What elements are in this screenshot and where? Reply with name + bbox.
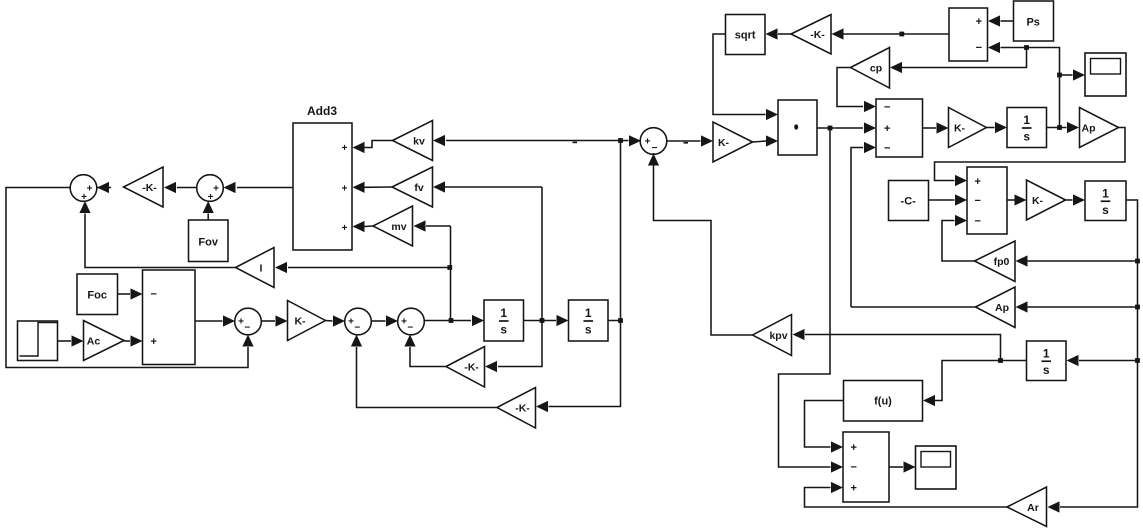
svg-text:1: 1 [1023,113,1030,127]
svg-text:+: + [884,123,890,135]
gain kv [393,121,433,161]
source step [18,321,58,361]
svg-text:s: s [500,323,507,337]
integrator 1/s #4 [1027,341,1067,381]
wire mv output to Add3 in3 [353,221,374,232]
svg-text:−: − [354,323,360,334]
svg-text:Add3: Add3 [307,104,337,118]
svg-text:+: + [81,192,87,203]
svg-text:+: + [401,317,407,328]
svg-text:s: s [1102,203,1109,217]
svg-text:mv: mv [391,221,406,233]
wire SB to SC [371,315,398,326]
svg-text:-K-: -K- [810,29,825,41]
wire cp input [890,48,1027,74]
wire integ1 to integ2 [524,315,569,326]
svg-text:-K-: -K- [464,362,479,374]
wire Fov to S2 bottom [203,201,214,220]
svg-text:Ap: Ap [1082,123,1096,135]
wire integ3 long feedback [1048,200,1140,513]
wire Foc to sum minus [118,288,143,299]
wire tap vertical to fv [541,187,543,321]
wire S1 right input [97,182,111,193]
wire kv input [433,135,621,146]
wire product tap down to sum3 [779,128,844,473]
gain -K- L1 [124,167,164,207]
svg-text:sqrt: sqrt [735,30,756,42]
gain cp [851,48,890,89]
wire integ4 out junction [998,358,1026,363]
wire branch to Ap2 [1016,301,1138,312]
integrator 1/s #2 [569,300,609,341]
wire sum to SA [195,315,235,326]
svg-text:-C-: -C- [901,196,917,208]
wire Sm to K-T1 [666,135,713,146]
wire tap to -K-a [485,321,542,373]
svg-text:+: + [975,176,981,188]
svg-text:1: 1 [500,306,507,320]
block Add3 [293,123,352,250]
sum block 2 (+--) [967,167,1007,234]
svg-text:1: 1 [1102,186,1109,200]
sum block mid (-+-) [876,99,923,157]
svg-text:+: + [851,483,857,495]
svg-text:Ap: Ap [995,302,1009,314]
gain kpv [753,315,792,356]
wire vertical x1059 [988,42,1062,128]
svg-text:+: + [151,336,157,348]
gain fp0 [975,241,1016,282]
wire Ap1 loop to sum2 [935,128,1126,187]
svg-text:cp: cp [870,63,882,75]
svg-text:1: 1 [1043,346,1050,360]
svg-text:f(u): f(u) [874,396,892,408]
gain Ar [1007,487,1047,527]
svg-text:+: + [851,442,857,454]
wire kpv to Sm bottom [648,153,753,335]
wire Ps to sumP [988,15,1014,26]
svg-text:Ps: Ps [1026,17,1039,29]
signal dash 1 [573,142,578,144]
block sqrt [726,15,766,55]
svg-text:K-: K- [954,123,966,135]
svg-text:+: + [342,184,348,195]
wire -C- to sum2 [929,194,968,205]
svg-text:-K-: -K- [142,182,157,194]
wire kv output to Add3 in1 [353,141,393,154]
gain K- T1 [713,122,753,162]
svg-text:Foc: Foc [87,290,107,302]
wire product out junction [817,122,876,133]
gain K- L [288,301,326,341]
wire -K-a to SC bottom [404,335,446,367]
wire S2 right input from Add3 [224,182,294,193]
svg-text:+: + [342,143,348,154]
wire tap vertical mv and I [447,226,452,321]
svg-text:kpv: kpv [769,330,787,342]
integrator 1/s #3 [1085,181,1126,221]
block product [778,100,817,155]
wire branch to fp0 [1016,255,1138,266]
sum circle S2 (++) [197,175,224,203]
svg-text:+: + [348,317,354,328]
wire I input [275,262,450,273]
wire S1 output loop [6,188,254,368]
signal dash 2 [684,142,689,144]
wire fp0 to sum2 [942,215,975,261]
svg-text:−: − [975,195,981,207]
svg-text:Fov: Fov [198,237,218,249]
gain Ap 2 [976,287,1016,328]
gain Ap 1 [1080,108,1119,148]
svg-text:−: − [652,143,658,154]
svg-text:K-: K- [294,316,306,328]
wire integ2 output up [608,138,623,323]
svg-text:fv: fv [414,182,423,194]
gain -K- b [497,388,536,429]
svg-text:K-: K- [718,137,730,149]
block Ps [1014,1,1054,41]
wire summid to K-T2 [923,122,949,133]
gain K- T2 [949,108,987,148]
wire scope1 input [1060,69,1086,80]
scope 1 [1085,53,1126,96]
svg-text:+: + [87,184,93,195]
svg-text:+: + [238,317,244,328]
svg-text:s: s [585,323,592,337]
sum circle Sm (+-) [640,128,667,155]
wire sqrt down to product in1 [713,34,778,120]
svg-text:+: + [645,137,651,148]
wire Ap2 output left [851,306,976,308]
block -C- [889,181,929,221]
wire K-M to integ3 [1066,194,1086,205]
wire -K-T to sqrt [766,28,792,39]
svg-text:+: + [213,184,219,195]
wire SA to K-L [261,315,288,326]
wire junction up to kpv [793,329,1001,361]
svg-text:+: + [208,192,214,203]
svg-text:I: I [260,263,263,275]
integrator 1/s top [1007,108,1047,148]
gain I [236,248,275,288]
wire sumP out to -K-T [832,28,950,39]
svg-text:−: − [407,323,413,334]
sum block left (- +) [143,270,196,365]
svg-text:−: − [884,143,890,155]
wire I output to S1 bottom [79,201,235,268]
svg-text:+: + [976,16,982,28]
wire K-L to SB [326,315,346,326]
wire fu out to sum3 [805,401,844,453]
wire step to Ac [58,335,84,346]
label Add3 [307,104,337,118]
sum circle SB (+-) [345,308,372,335]
sum block 3 (+-+) [843,432,889,502]
scope 2 [916,446,957,489]
wire fv input [433,181,542,192]
svg-text:−: − [884,102,890,114]
svg-text:K-: K- [1032,195,1044,207]
wire -K-L1 input [164,182,197,193]
wire fv output to Add3 in2 [353,182,393,193]
block Fov [189,220,229,262]
svg-text:s: s [1043,363,1050,377]
svg-text:−: − [151,289,157,301]
svg-text:+: + [342,223,348,234]
svg-text:1: 1 [585,306,592,320]
gain fv [392,167,433,207]
gain mv [373,206,413,246]
gain -K- a [446,347,485,388]
wire integ2 output down to -K-b [536,321,621,413]
wire Ap2 up to sum mid [851,142,876,307]
sum circle SC (+-) [398,308,425,335]
gain Ac [84,321,125,361]
svg-text:-K-: -K- [515,403,530,415]
wire cp output to sum mid [837,68,876,113]
block Foc [77,274,118,315]
wire K-T1 to product [753,135,779,146]
svg-text:−: − [976,42,982,54]
svg-text:kv: kv [413,136,425,148]
block f(u) [844,381,923,422]
gain -K- T [791,15,831,55]
wire integtop to Ap1 [1047,122,1080,133]
wire junction to fu [923,361,1001,407]
svg-text:s: s [1023,130,1030,144]
integrator 1/s #1 [484,300,524,341]
wire main to Sm [621,135,642,146]
sum block P (+ -) [949,8,988,61]
gain K- M [1027,180,1066,220]
sum circle S1 (++) [70,175,97,203]
wire Ar out to sum3 [805,482,1008,507]
wire SC to integrator1 [424,315,484,326]
svg-text:−: − [975,216,981,228]
wire Ac to sum plus [124,335,143,346]
wire mv input [414,220,451,231]
wire branch to integ4 [1067,355,1138,366]
svg-text:−: − [851,462,857,474]
svg-text:fp0: fp0 [994,256,1010,268]
sum circle SA (+-) [235,308,262,335]
wire sum2 to K-M [1007,194,1027,205]
svg-text:Ar: Ar [1027,502,1039,514]
wire sum3 to scope2 [889,461,916,472]
wire -K-b to SB bottom [351,335,497,408]
svg-text:Ac: Ac [87,336,101,348]
svg-text:−: − [244,323,250,334]
wire K-T2 to integ top [987,122,1008,133]
